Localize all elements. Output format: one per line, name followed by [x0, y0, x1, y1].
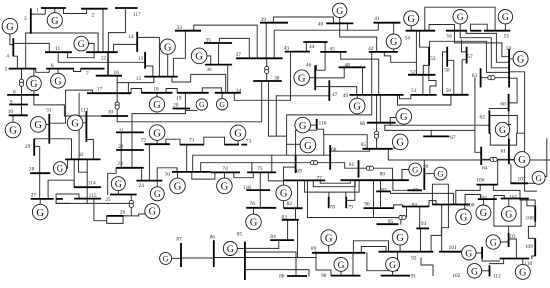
svg-text:41: 41 — [374, 16, 380, 22]
svg-text:G: G — [250, 218, 258, 229]
wire B-75 — [251, 163, 253, 173]
generator G — [246, 214, 262, 230]
gen99 stub — [424, 173, 433, 175]
wire 84-85 — [246, 240, 279, 248]
svg-text:59: 59 — [506, 46, 512, 52]
svg-text:61: 61 — [501, 148, 507, 154]
gen59 stub — [509, 58, 513, 60]
bus 79 — [345, 197, 347, 209]
gen110 stub — [522, 259, 524, 265]
wire 34-43 — [234, 52, 290, 101]
svg-text:G: G — [164, 42, 172, 53]
wire 83-84 — [287, 220, 289, 240]
wire 77-80c — [305, 180, 360, 192]
wire 46-47t — [315, 86, 329, 88]
generator G — [501, 206, 516, 221]
svg-text:49: 49 — [343, 93, 349, 99]
svg-text:G: G — [57, 164, 64, 174]
gen18 stub — [156, 93, 158, 97]
svg-text:64: 64 — [482, 165, 488, 171]
wire 67-N — [430, 130, 432, 135]
svg-text:G: G — [298, 73, 306, 84]
generator G — [191, 48, 207, 64]
gen70 stub — [177, 172, 179, 178]
bus 58 — [446, 47, 448, 67]
svg-text:3: 3 — [24, 16, 27, 22]
svg-text:100: 100 — [466, 203, 474, 209]
generator G — [532, 171, 545, 184]
bus 1 — [41, 7, 66, 9]
svg-text:70: 70 — [165, 172, 171, 178]
bus 59 — [508, 49, 510, 88]
wire 94-95 — [401, 207, 407, 225]
generator G — [392, 134, 408, 150]
svg-text:80: 80 — [380, 172, 386, 178]
bus 11 — [45, 51, 72, 53]
wire 33-15 — [173, 31, 185, 77]
svg-text:G: G — [519, 268, 526, 279]
svg-text:G: G — [195, 52, 203, 63]
generator G — [396, 109, 412, 125]
svg-text:G: G — [304, 141, 312, 152]
wire 2-12 — [102, 9, 104, 53]
svg-text:16: 16 — [114, 70, 120, 76]
svg-text:67: 67 — [450, 135, 456, 141]
svg-text:G: G — [153, 100, 161, 111]
wire 25-E — [108, 202, 132, 204]
bus 101 — [439, 251, 462, 253]
gen19 stub — [199, 55, 206, 57]
gen15 stub — [167, 54, 169, 76]
svg-text:90: 90 — [321, 273, 327, 279]
wire 79-80 — [346, 180, 355, 200]
svg-text:58: 58 — [444, 68, 450, 74]
wire 106-100 — [456, 185, 480, 205]
wire 5-6 — [36, 69, 50, 73]
wire 20-21 — [131, 114, 133, 168]
wire 75-118 — [259, 172, 261, 207]
svg-text:52: 52 — [410, 69, 416, 75]
svg-text:79: 79 — [348, 205, 354, 211]
svg-text:G: G — [299, 121, 307, 132]
svg-text:66: 66 — [360, 121, 366, 127]
bus 54 — [406, 30, 436, 32]
svg-text:98: 98 — [413, 187, 419, 193]
svg-text:G: G — [437, 169, 443, 179]
bus 75 — [247, 171, 276, 173]
wire 97-96 — [380, 191, 382, 208]
gen24 stub — [156, 181, 158, 187]
wire 16-17-15 — [117, 82, 154, 84]
bus 53 — [428, 47, 430, 65]
bus 49 — [350, 94, 404, 96]
transformer — [115, 102, 119, 106]
gen76 stub — [253, 208, 255, 214]
svg-text:83: 83 — [282, 215, 288, 221]
wire 62-66 — [385, 124, 490, 126]
gen46 stub — [309, 77, 315, 79]
generator G — [170, 178, 186, 194]
svg-text:29: 29 — [25, 144, 31, 150]
wire 3-1 — [31, 8, 46, 14]
bus 14 — [136, 32, 138, 52]
wire 89-92j — [361, 247, 386, 253]
bus 33 — [175, 30, 201, 32]
bus 72 — [145, 143, 170, 145]
bus 23 — [116, 167, 144, 169]
svg-text:G: G — [163, 254, 169, 263]
bus 76 — [246, 207, 276, 209]
wire 29-28 — [34, 146, 40, 173]
wire 78-up — [328, 192, 330, 197]
svg-text:65: 65 — [361, 142, 367, 148]
svg-text:38: 38 — [274, 75, 280, 81]
wire 61-107 — [510, 164, 512, 183]
bus 83 — [282, 219, 299, 221]
generator G — [145, 204, 160, 219]
svg-text:57: 57 — [467, 54, 473, 60]
bus 9 — [9, 104, 28, 106]
bus 78 — [328, 197, 330, 209]
bus 87 — [180, 243, 182, 267]
svg-text:G: G — [78, 39, 85, 50]
svg-text:40: 40 — [318, 22, 324, 28]
wire 62-61 — [489, 116, 524, 134]
svg-text:G: G — [234, 129, 242, 140]
wire 65-E — [388, 149, 481, 160]
wire 68-65 — [330, 149, 370, 151]
wire 89-90b — [316, 252, 331, 276]
svg-text:G: G — [6, 22, 14, 33]
wire 18-19j — [166, 89, 177, 93]
svg-text:55: 55 — [504, 34, 510, 40]
wire 40-39b — [340, 23, 377, 52]
bus 89 — [312, 252, 365, 254]
generator G — [149, 125, 165, 141]
wire 89-92u — [367, 252, 398, 271]
generator G — [392, 230, 408, 246]
wire 115-26 — [94, 199, 107, 221]
wire 89-N — [352, 241, 354, 253]
wire 108-109 — [528, 222, 535, 239]
generator G — [196, 99, 207, 110]
gen66 jog — [390, 118, 397, 126]
svg-text:69: 69 — [296, 168, 302, 174]
svg-text:82: 82 — [287, 201, 293, 207]
wire 110-112 — [490, 259, 504, 264]
wire 53-59 — [430, 41, 510, 72]
wire 53-51 — [429, 65, 436, 95]
wire 93-92 — [420, 228, 422, 251]
svg-text:32: 32 — [78, 152, 84, 158]
generator G — [294, 70, 310, 86]
svg-text:G: G — [336, 6, 343, 17]
svg-text:G: G — [408, 14, 415, 25]
svg-text:G: G — [54, 76, 61, 87]
svg-text:77: 77 — [317, 176, 323, 182]
svg-text:G: G — [36, 208, 44, 219]
bus 81 — [358, 160, 360, 177]
bus 94 — [403, 206, 430, 208]
svg-text:21: 21 — [119, 128, 125, 134]
svg-text:6: 6 — [51, 63, 54, 69]
generator G — [53, 162, 66, 175]
svg-text:115: 115 — [89, 193, 97, 199]
genL wire — [10, 34, 13, 45]
wire 107-106 — [525, 183, 537, 191]
wire 16-17 — [116, 76, 118, 122]
bus 10 — [9, 114, 28, 116]
gen102 stub — [476, 252, 482, 254]
generator G — [495, 122, 509, 136]
generator G — [467, 264, 481, 278]
svg-text:36: 36 — [206, 67, 212, 73]
bus 98 — [408, 189, 423, 191]
bus 97 — [376, 190, 390, 192]
wire 57-50 — [462, 60, 467, 94]
wire 85-88b — [246, 270, 309, 276]
wire 109-110 — [532, 256, 535, 259]
wire 21-23 — [120, 132, 122, 167]
bus 26 — [107, 215, 123, 217]
generator G — [404, 11, 419, 26]
wire 38-30 — [117, 81, 262, 122]
transformer — [375, 131, 379, 135]
wire 46-49 — [329, 87, 356, 95]
svg-text:84: 84 — [270, 234, 276, 240]
svg-text:93: 93 — [421, 221, 427, 227]
bus 24 — [136, 180, 162, 182]
svg-text:117: 117 — [133, 12, 141, 18]
wire 26-dip — [107, 216, 123, 224]
wire 32-S — [79, 159, 88, 172]
bus 57 — [466, 47, 468, 64]
svg-text:G: G — [71, 119, 79, 130]
gen34 stub — [221, 93, 223, 99]
wire 17-113 — [78, 93, 80, 159]
svg-text:31: 31 — [46, 107, 52, 113]
bus 17 — [87, 92, 131, 94]
bus 25 — [110, 194, 137, 196]
bus 55b — [471, 30, 482, 32]
svg-text:G: G — [396, 233, 404, 244]
wire 5-8 — [21, 69, 23, 95]
svg-text:G: G — [400, 112, 408, 123]
gen36 jog — [206, 56, 211, 65]
bus 80 — [341, 179, 409, 181]
wire 12-14 — [114, 44, 138, 52]
wire box-103 — [508, 226, 510, 233]
gen65 stub — [393, 144, 395, 149]
wire 103-110 — [509, 239, 517, 259]
wire 91-92s — [421, 258, 433, 276]
svg-text:G: G — [51, 16, 59, 27]
svg-text:118: 118 — [243, 185, 251, 191]
bus 29 — [33, 139, 35, 156]
wire 63-59t — [481, 77, 510, 79]
wire 70-B — [201, 163, 359, 172]
bus 77 — [284, 179, 326, 181]
wire t-65 — [376, 138, 378, 149]
wire 39-40 — [273, 17, 333, 23]
svg-text:G: G — [149, 207, 156, 218]
wire 40-41 — [347, 23, 378, 31]
bus 35 — [204, 42, 232, 44]
bus 109 — [534, 238, 536, 256]
generator G — [453, 10, 467, 24]
wire 72-71 — [166, 139, 180, 144]
wire 77-SE — [308, 180, 401, 217]
generator G — [30, 117, 46, 133]
wire 72-24 — [148, 144, 150, 180]
svg-text:5: 5 — [4, 67, 7, 73]
wire 13-15 — [145, 66, 153, 77]
generator G — [51, 73, 66, 88]
generator G — [295, 117, 311, 133]
gen54 stub — [410, 26, 412, 31]
bus 73a — [225, 144, 240, 146]
generator G — [230, 125, 246, 141]
svg-text:73: 73 — [246, 139, 252, 145]
wire 74-75j — [234, 172, 254, 177]
wire 93-94 — [419, 207, 421, 229]
bus 118 — [246, 189, 270, 191]
svg-text:12: 12 — [101, 55, 107, 61]
svg-text:G: G — [480, 208, 487, 219]
gen89 stub — [328, 245, 330, 252]
bus 34 — [215, 92, 241, 94]
bus 95 — [377, 223, 399, 225]
bus 99 — [423, 168, 425, 190]
svg-text:95: 95 — [388, 219, 394, 225]
svg-text:25: 25 — [105, 197, 111, 203]
wire 23-24 — [141, 168, 143, 181]
wire A-75 — [271, 155, 273, 172]
wire 44-45 — [324, 42, 326, 52]
bus 27b — [56, 198, 62, 200]
wire 35-36 — [218, 43, 220, 65]
svg-text:88: 88 — [279, 273, 285, 279]
wire 60-62 — [489, 108, 508, 110]
bus 50 — [443, 94, 469, 96]
wire 80-97 — [380, 180, 382, 191]
svg-text:G: G — [325, 233, 333, 244]
bus 64 — [480, 147, 482, 165]
bus 5 — [9, 68, 36, 70]
svg-text:G: G — [471, 266, 478, 277]
gen112 stub — [482, 270, 490, 272]
svg-text:75: 75 — [257, 166, 263, 172]
bus 20 — [173, 108, 191, 110]
generator G — [5, 122, 21, 138]
bus 55 — [484, 30, 510, 32]
wire 77-80a — [320, 180, 350, 183]
wire 37-38t — [266, 58, 268, 81]
wire 8-30 — [34, 95, 101, 116]
bus 103 — [508, 233, 510, 247]
generator G — [321, 230, 337, 246]
transformer — [311, 161, 315, 165]
bus 7 — [81, 68, 105, 70]
gen55 stub — [504, 24, 506, 31]
generator G — [334, 257, 348, 271]
wire 27b-U — [56, 194, 70, 203]
wire 106-108 — [493, 185, 535, 206]
svg-text:26: 26 — [120, 210, 126, 216]
generator G — [216, 99, 227, 110]
svg-text:G: G — [536, 173, 543, 183]
svg-text:G: G — [517, 54, 524, 65]
wire 116-69 — [323, 135, 325, 156]
gen60 stub — [509, 124, 511, 126]
wire G99-n — [432, 184, 448, 228]
bus 4 — [12, 38, 14, 56]
bus 108 — [534, 206, 536, 222]
wire 39-37 — [265, 23, 267, 59]
gen26 jog — [139, 211, 145, 216]
svg-text:18: 18 — [153, 86, 159, 92]
wire 83-85 — [297, 220, 299, 258]
generator G — [150, 187, 164, 201]
svg-text:45: 45 — [329, 46, 335, 52]
wire 6-7 — [74, 69, 81, 72]
bus 13 — [144, 52, 146, 69]
wire 49-50 — [398, 95, 451, 105]
gen27 stub — [39, 199, 41, 204]
wire 79-up — [345, 192, 347, 197]
bus 45 — [320, 51, 346, 53]
bus 82 — [284, 207, 303, 209]
bus 93 — [416, 227, 429, 229]
svg-text:108: 108 — [526, 215, 534, 221]
svg-text:19: 19 — [176, 95, 182, 101]
wire 33-37 — [194, 25, 257, 58]
wire 14-15 — [137, 37, 159, 76]
wire 113-32 — [86, 140, 93, 160]
svg-text:54: 54 — [405, 35, 411, 41]
svg-text:53: 53 — [430, 56, 436, 62]
generator G — [67, 115, 83, 131]
bus 84 — [270, 239, 294, 241]
svg-text:G: G — [154, 190, 161, 200]
wire 49-51 — [400, 95, 411, 99]
generator G — [514, 152, 530, 168]
wire 115-E — [56, 202, 108, 204]
generator G — [276, 185, 292, 201]
wire 106-N — [497, 160, 499, 185]
wire 54-52 — [415, 31, 417, 75]
bus 91 — [381, 275, 410, 277]
transformer — [488, 76, 492, 80]
svg-text:G: G — [34, 120, 42, 131]
generator G — [47, 13, 62, 28]
bus 65 — [362, 148, 392, 150]
svg-text:101: 101 — [449, 245, 457, 251]
svg-text:8: 8 — [13, 89, 16, 95]
gen80 link — [402, 170, 409, 181]
wire 42-S1 — [384, 52, 416, 62]
svg-text:G: G — [280, 189, 288, 200]
bus 39 — [260, 22, 288, 24]
wire 38-S — [269, 81, 287, 136]
wire 69-N — [296, 130, 317, 155]
wire 27b-115 — [56, 194, 79, 199]
wire 32-114 — [86, 159, 88, 203]
wire 64-61t — [481, 158, 509, 160]
svg-text:56: 56 — [447, 33, 453, 39]
wire 61-107G — [544, 139, 547, 177]
generator G — [223, 242, 237, 256]
